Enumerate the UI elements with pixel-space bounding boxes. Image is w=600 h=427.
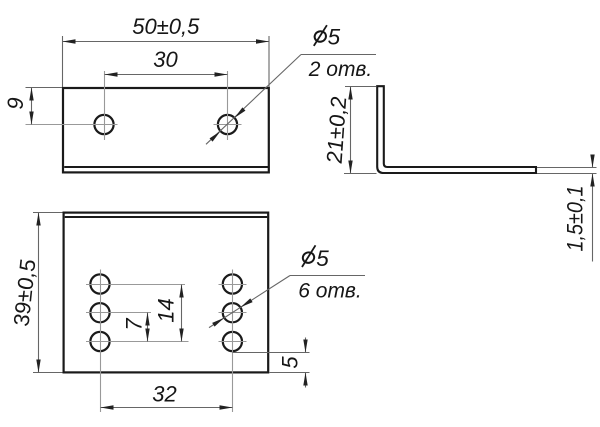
svg-text:2 отв.: 2 отв. (308, 58, 372, 81)
dimension 50 arrow right (256, 39, 269, 43)
top view bend line (64, 166, 268, 168)
dimension 21±0,2 extension line bottom (344, 173, 377, 175)
hole B4 (right col row1) (223, 274, 242, 293)
center line row1 right (219, 284, 247, 286)
dimension 50±0,5 line (63, 41, 270, 43)
label φ symbol (bottom): slash (302, 245, 316, 267)
dimension 5 line below (305, 373, 307, 388)
hole B2 (left col row2) (90, 303, 109, 322)
dimension 5 extension line lower (plate bottom edge) (270, 372, 310, 374)
dimension 30 arrow right (215, 72, 228, 76)
leader for holes φ5 6 отв.: diagonal through hole B5 to shelf (209, 276, 290, 328)
dimension 30 arrow left (105, 72, 118, 76)
leader for holes φ5 2 отв.: diagonal through hole H2 to shelf (206, 55, 301, 145)
dimension 7 arrow down (145, 329, 149, 342)
dimension 1,5 arrow down (590, 155, 594, 168)
center line row2 left / 7-dim extension (86, 312, 151, 314)
svg-text:14: 14 (154, 298, 179, 322)
label φ symbol (bottom): ellipse (302, 251, 316, 264)
dimension 21 arrow down (348, 161, 352, 174)
dimension 14 arrow up (179, 285, 183, 298)
center line horizontal through hole H2 (214, 124, 242, 126)
dimension 50±0,5 extension line left (62, 36, 64, 87)
dimension 50±0,5 extension line right (268, 36, 270, 87)
leader shelf line (2 отв.) (301, 54, 376, 56)
svg-text:32: 32 (152, 382, 176, 407)
leader arrow at hole B5 lower left (212, 316, 225, 327)
dimension 21±0,2 extension line top (345, 86, 376, 88)
dimension 21 arrow up (348, 87, 352, 100)
leader arrow at hole B5 upper right (239, 298, 252, 309)
svg-text:7: 7 (122, 318, 147, 331)
dimension 32 arrow left (101, 405, 114, 409)
bottom view bend line (65, 216, 268, 218)
dimension 5 extension line upper (hole bottom level) (233, 352, 310, 354)
dimension 9 extension line top (26, 87, 63, 89)
dimension 39±0,5 extension line top (33, 212, 63, 214)
dimension 32 line (101, 407, 233, 409)
dimension 39±0,5 extension line bottom (33, 372, 63, 374)
dimension 5 arrow down (303, 340, 307, 353)
bottom view plate outline (64, 213, 269, 373)
leader arrow at hole H2 upper right (233, 107, 245, 119)
center line row3 left (86, 341, 189, 343)
hole B1 (left col row1) (90, 274, 109, 293)
dimension 1,5 arrow up (590, 174, 594, 187)
svg-text:30: 30 (153, 47, 178, 72)
dimension 14 line (181, 285, 183, 342)
dimension 5 arrow up (303, 373, 307, 386)
dimension 9 arrow up (29, 88, 33, 101)
dimension 30 line (105, 74, 228, 76)
dimension 50 arrow left (63, 39, 76, 43)
svg-text:1,5±0,1: 1,5±0,1 (563, 186, 588, 252)
hole H1 (left, top view) (94, 115, 113, 134)
dimension 39 arrow up (36, 213, 40, 226)
dimension 1,5 line above (592, 156, 594, 168)
dimension 39 arrow down (36, 360, 40, 373)
center line row1 left / 14-dim extension (86, 284, 185, 286)
top view plate outline (63, 88, 269, 172)
svg-text:21±0,2: 21±0,2 (322, 96, 352, 164)
svg-text:5: 5 (328, 24, 341, 49)
L-profile outline (377, 86, 536, 173)
dimension 21±0,2 line (350, 87, 352, 174)
center line vertical through hole H1 / extension of 30-dim (104, 71, 106, 140)
svg-text:50±0,5: 50±0,5 (132, 14, 200, 39)
dimension 14 arrow down (179, 329, 183, 342)
dimension 1,5 line below (592, 174, 594, 262)
dimension 1,5±0,1 extension line top (537, 167, 597, 169)
hole H2 (right, top view) (218, 115, 237, 134)
svg-text:5: 5 (278, 356, 303, 369)
hole B3 (left col row3) (90, 332, 109, 351)
svg-text:6 отв.: 6 отв. (298, 280, 361, 303)
leader shelf line (6 отв.) (290, 275, 365, 277)
leader arrow at hole H2 lower left (210, 130, 222, 142)
label φ symbol (top): slash (314, 25, 327, 46)
svg-text:9: 9 (3, 97, 28, 109)
center line row3 right (219, 341, 247, 343)
dimension 7 arrow up (145, 313, 149, 326)
dimension 32 arrow right (220, 405, 233, 409)
center line vertical through hole H2 / extension of 30-dim (227, 71, 229, 140)
dimension 39±0,5 line (38, 213, 40, 373)
svg-text:39±0,5: 39±0,5 (9, 259, 41, 327)
center line vertical right column / 32-dim extension (232, 270, 234, 413)
center line vertical left column / 32-dim extension (100, 270, 102, 413)
label φ symbol (top): ellipse (313, 30, 327, 43)
dimension 7 line (147, 313, 149, 342)
dimension 1,5±0,1 extension line bottom (537, 173, 597, 175)
center line row2 right (219, 312, 247, 314)
svg-text:5: 5 (316, 246, 329, 271)
center line horizontal through hole H1 (26, 124, 118, 126)
hole B5 (right col row2) (223, 303, 242, 322)
hole B6 (right col row3) (223, 332, 242, 351)
dimension 5 line above (305, 338, 307, 353)
dimension 9 arrow down (29, 112, 33, 125)
dimension 9 line (31, 88, 33, 125)
